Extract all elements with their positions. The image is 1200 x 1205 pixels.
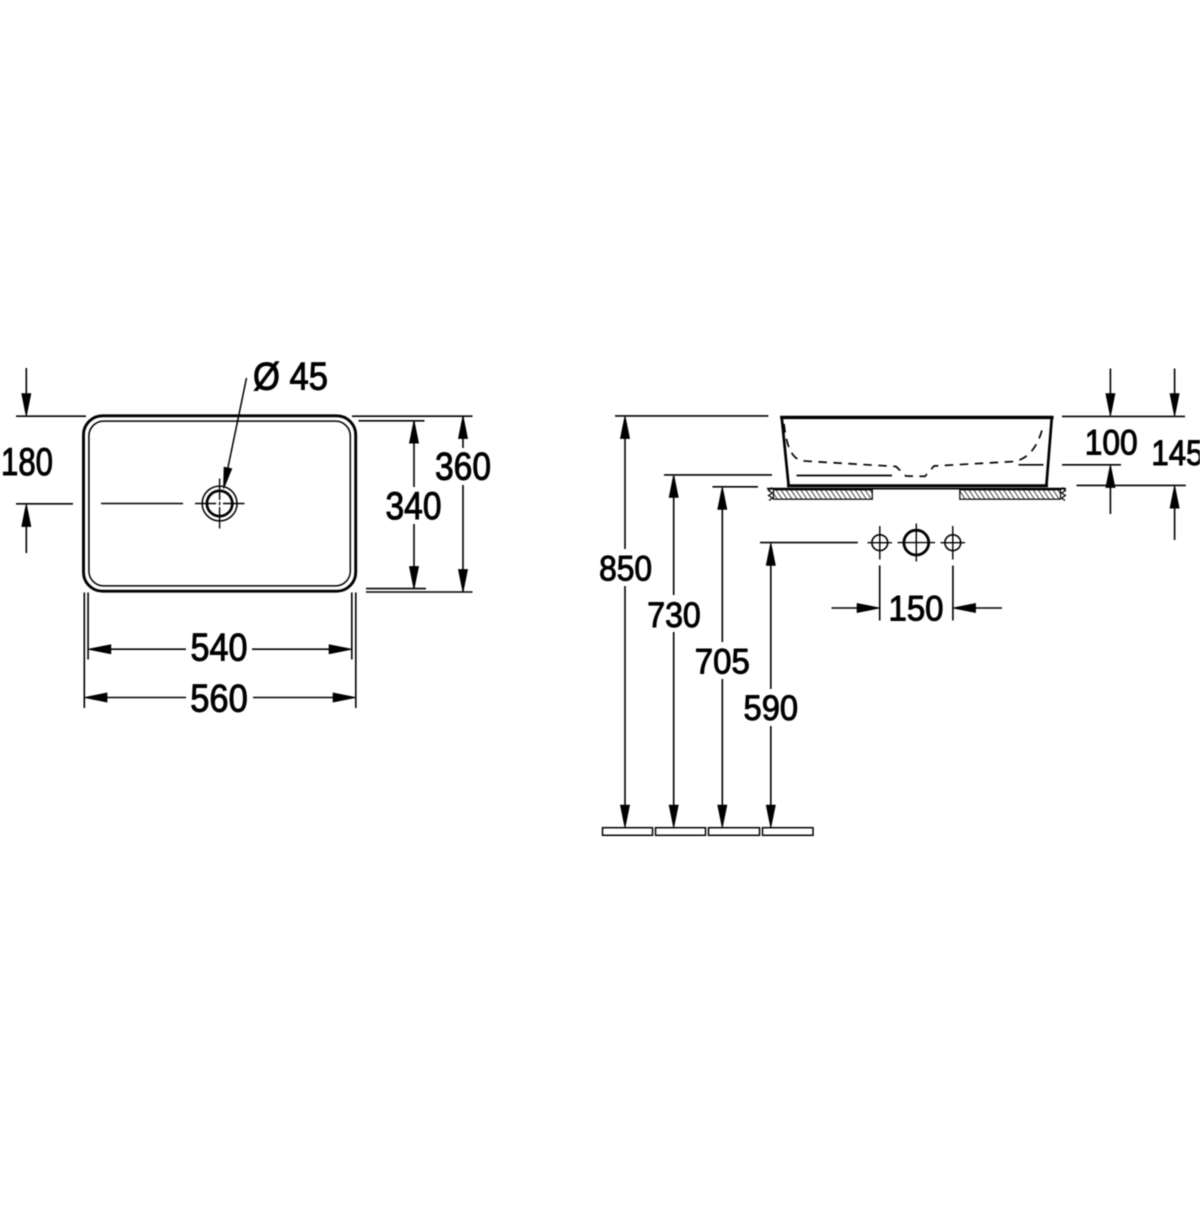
floor line segment 2 [656,828,706,836]
dim 540 left extension line [87,593,89,660]
dim 150 right extension line [952,566,954,621]
basin inner bowl hidden contour [784,424,1044,476]
basin inner front edge line [797,475,893,477]
tap hole right [941,526,966,560]
dim 340 label [386,485,442,528]
svg-text:850: 850 [599,549,652,589]
countertop surface line [767,488,1066,490]
dim 590 extension line [760,542,858,544]
basin inner bottom edge line [1019,464,1044,466]
svg-text:Ø 45: Ø 45 [253,356,328,399]
dim 360 label [435,446,491,489]
dim 180 label [1,441,53,484]
dim 340 line [410,421,419,589]
svg-text:180: 180 [1,441,53,484]
dim 180 bottom arrow [22,504,31,553]
dim 850 label [599,549,652,589]
floor line segment 3 [709,828,760,836]
dim 540 line [89,645,352,654]
dim 340 top extension line [359,420,425,422]
dim 145 bottom arrow [1170,486,1179,540]
dim 150 label [889,589,944,629]
svg-text:340: 340 [386,485,442,528]
dim 100 bottom arrow [1106,465,1115,514]
dim 730 label [647,595,701,635]
dim 100 label [1085,423,1138,463]
svg-text:560: 560 [190,678,248,721]
dim 100 bottom extension line [1062,464,1121,466]
dim 560 right extension line [355,593,357,709]
dim 150 right arrow [953,604,1002,613]
dim 560 left extension line [83,593,85,709]
basin centreline [101,503,183,505]
svg-text:705: 705 [695,642,750,682]
svg-text:590: 590 [744,688,799,728]
dim 730 extension line [664,474,772,476]
dim 180 top arrow [22,368,31,416]
dim 145 label [1151,433,1200,473]
dim 730 line [669,475,678,827]
leader line for drain diameter [224,378,247,489]
tap hole left [868,526,893,560]
svg-text:150: 150 [889,589,944,629]
countertop hatched section right [960,490,1061,499]
dim 360 top extension line [352,415,473,417]
basin side view outline [780,416,1053,486]
drain centre mark [195,479,245,529]
dim 180 top extension line [16,415,86,417]
label diameter 45 [253,356,328,399]
basin top view outer rim [84,416,356,591]
dim 100 top arrow [1106,369,1115,416]
drain hole outer circle [202,486,237,521]
countertop break mark right [1062,488,1066,501]
svg-text:360: 360 [435,446,491,489]
tap hole centre [898,524,936,562]
dim 145 bottom extension line [1077,484,1186,486]
drain hole inner circle [207,491,232,516]
dim 560 label [190,678,248,721]
dim 590 label [744,688,799,728]
dim 590 line [766,543,775,827]
dim 850 line [621,416,630,827]
dim 100 top extension line [1062,415,1185,417]
dim 850 extension line [615,415,768,417]
dim 560 line [85,693,355,702]
dim 705 extension line [713,486,759,488]
svg-text:145: 145 [1151,433,1200,473]
floor line segment 1 [603,828,653,836]
floor line segment 4 [763,828,814,836]
dim 705 line [718,487,727,827]
dim 145 top arrow [1170,369,1179,416]
dim 360 bottom extension line [366,591,473,593]
svg-text:100: 100 [1085,423,1138,463]
dim 705 label [695,642,750,682]
svg-text:730: 730 [647,595,701,635]
dim 340 bottom extension line [366,588,426,590]
dim 180 bottom extension line [16,503,73,505]
dim 360 line [459,416,468,591]
dim 150 left extension line [879,566,881,621]
basin top view inner rim [89,421,350,586]
dim 150 left arrow [832,604,880,613]
dim 540 right extension line [351,593,353,660]
svg-text:540: 540 [191,627,248,670]
countertop break mark left [769,488,773,501]
dim 540 label [191,627,248,670]
countertop hatched section left [774,490,873,499]
